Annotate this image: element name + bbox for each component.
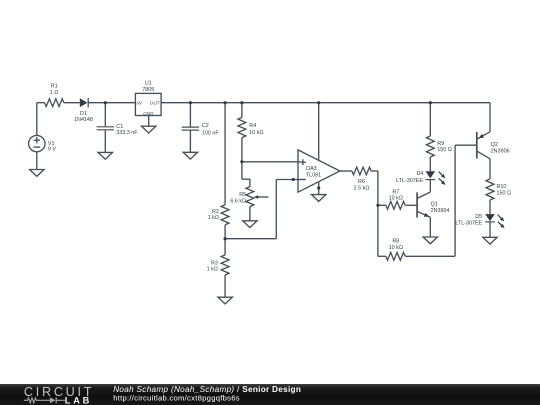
svg-text:10 kΩ: 10 kΩ (389, 245, 403, 251)
svg-text:D4: D4 (416, 171, 423, 177)
svg-text:http://circuitlab.com/cxt8pggq: http://circuitlab.com/cxt8pggqfbs6s (113, 394, 240, 403)
svg-text:10 kΩ: 10 kΩ (389, 196, 403, 202)
svg-text:U1: U1 (145, 81, 152, 87)
svg-text:R7: R7 (392, 189, 399, 195)
svg-text:LTL-307EE: LTL-307EE (396, 178, 423, 184)
svg-text:R1: R1 (51, 84, 58, 90)
svg-text:1 kΩ: 1 kΩ (207, 267, 218, 273)
svg-text:R4: R4 (249, 123, 256, 129)
svg-text:2N3906: 2N3906 (491, 149, 510, 155)
svg-text:R6: R6 (358, 179, 365, 185)
svg-text:6.6 kΩ: 6.6 kΩ (230, 198, 246, 204)
svg-text:Q1: Q1 (431, 201, 438, 207)
svg-text:10 kΩ: 10 kΩ (249, 130, 263, 136)
svg-text:100 nF: 100 nF (202, 130, 219, 136)
svg-text:OUT: OUT (150, 100, 161, 105)
svg-text:2.5 kΩ: 2.5 kΩ (354, 185, 370, 191)
svg-text:R5: R5 (239, 192, 246, 198)
svg-text:R10: R10 (497, 184, 507, 190)
svg-text:GND: GND (143, 111, 154, 116)
svg-text:IN: IN (137, 100, 142, 105)
svg-text:TL081: TL081 (306, 172, 321, 178)
svg-text:9 V: 9 V (48, 147, 56, 153)
svg-text:2N3904: 2N3904 (431, 208, 450, 214)
svg-text:150 Ω: 150 Ω (497, 190, 512, 196)
svg-text:LAB: LAB (65, 395, 92, 405)
svg-text:Q2: Q2 (491, 142, 498, 148)
svg-text:D5: D5 (475, 214, 482, 220)
svg-text:1N4148: 1N4148 (74, 117, 93, 123)
svg-text:333.3 nF: 333.3 nF (116, 130, 138, 136)
svg-text:1 kΩ: 1 kΩ (208, 215, 219, 221)
svg-text:150 Ω: 150 Ω (437, 147, 452, 153)
svg-text:1 Ω: 1 Ω (50, 90, 59, 96)
svg-text:R3: R3 (211, 260, 218, 266)
svg-text:LTL-307EE: LTL-307EE (455, 220, 482, 226)
svg-text:C2: C2 (202, 123, 209, 129)
svg-text:OA3: OA3 (306, 166, 317, 172)
svg-text:7805: 7805 (142, 87, 154, 93)
svg-text:R8: R8 (392, 239, 399, 245)
